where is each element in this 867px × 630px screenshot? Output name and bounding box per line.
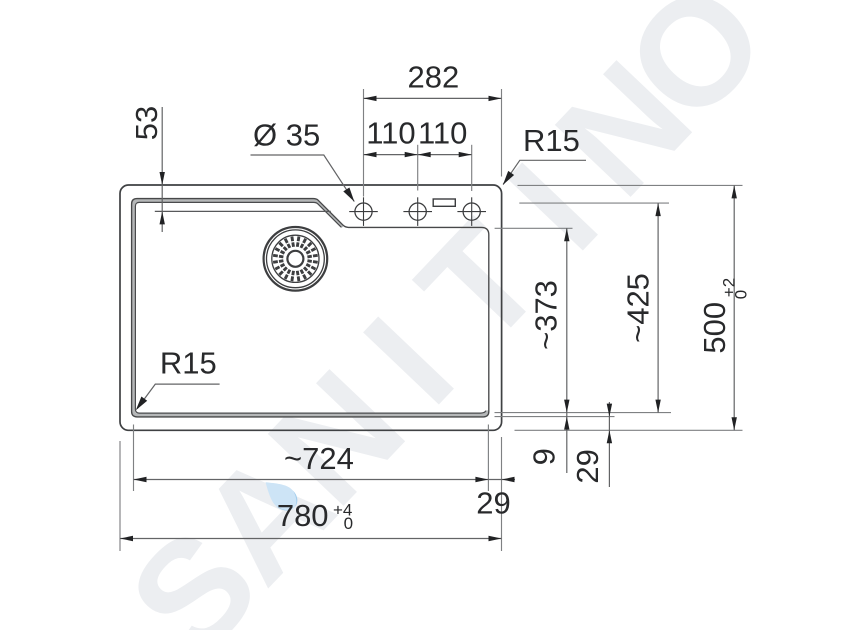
svg-text:110: 110: [366, 115, 415, 150]
overflow / accessory hole: [433, 199, 455, 206]
faucet hole 1: [349, 197, 378, 226]
svg-text:9: 9: [526, 448, 561, 465]
dimension 53: [161, 107, 163, 232]
extension lines: [120, 89, 743, 551]
svg-text:~724: ~724: [284, 441, 354, 476]
svg-text:53: 53: [129, 106, 164, 140]
dimension ~425: [657, 203, 659, 413]
svg-text:~373: ~373: [529, 280, 564, 350]
svg-text:0: 0: [344, 514, 353, 533]
dimension ~724: [134, 479, 489, 481]
svg-text:29: 29: [570, 449, 605, 483]
svg-text:Ø 35: Ø 35: [253, 118, 320, 153]
svg-text:0: 0: [732, 290, 751, 299]
dimension 780 +4/0: [120, 538, 502, 540]
bowl band gray core: [134, 201, 487, 416]
radius label R15 top-right: [503, 160, 586, 184]
dimension 500 +2/0: [733, 185, 735, 430]
outer rim of sink: [120, 185, 502, 430]
radius label R15 bottom-left: [137, 384, 219, 409]
drain strainer: [264, 227, 328, 291]
svg-text:29: 29: [476, 485, 510, 520]
bowl outline inner edge: [135, 202, 486, 413]
watermark drop logo: [258, 474, 302, 516]
svg-text:780: 780: [277, 498, 329, 533]
diameter label 35: [251, 155, 355, 202]
dimension 282: [364, 97, 502, 99]
dimension 9: [566, 413, 568, 473]
waterline inside bowl: [155, 210, 331, 212]
dimension 29 horizontal: [488, 479, 515, 481]
svg-text:~425: ~425: [621, 273, 656, 343]
svg-text:500: 500: [697, 302, 732, 354]
dimension 110 right: [418, 154, 472, 156]
svg-text:R15: R15: [160, 346, 217, 381]
faucet hole 3: [457, 197, 486, 226]
svg-text:110: 110: [418, 115, 467, 150]
bowl outline outer edge: [132, 199, 489, 417]
dimension ~373: [566, 228, 568, 412]
svg-text:282: 282: [408, 60, 460, 95]
faucet hole 2: [403, 197, 432, 226]
svg-text:R15: R15: [523, 123, 580, 158]
dimension 29 vertical: [608, 402, 610, 487]
dimension 110 left: [364, 154, 418, 156]
